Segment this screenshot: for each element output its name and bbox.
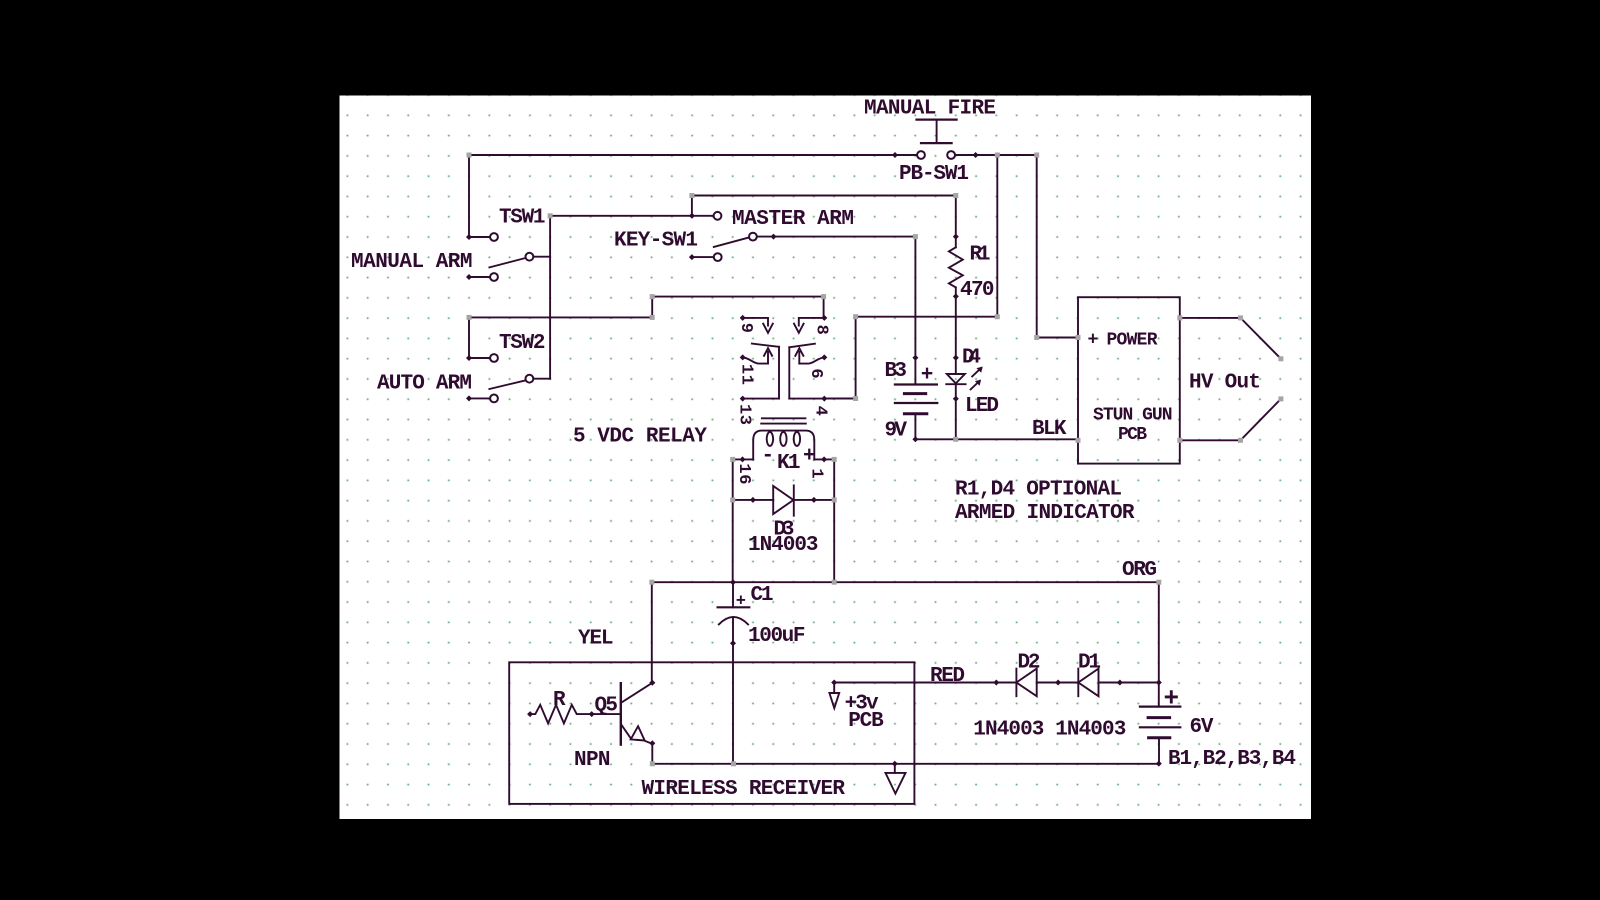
svg-text:9: 9 xyxy=(736,323,755,333)
wire: master arm vertical riser xyxy=(691,196,693,216)
wire: battery B3 negative lead xyxy=(914,414,916,440)
switch arm TSW1 xyxy=(489,258,525,267)
wire: emitter to ground rail xyxy=(651,743,653,764)
contact circle TSW1 common xyxy=(526,253,534,261)
wire: TSW1 common lead xyxy=(534,256,550,258)
svg-text:+: + xyxy=(736,593,746,612)
wire: 6V battery negative lead xyxy=(1158,738,1160,764)
svg-text:+: + xyxy=(1088,330,1099,350)
wire: relay return horizontal xyxy=(856,316,998,318)
wire: R1 top lead xyxy=(955,196,957,248)
battery 6V plates xyxy=(1140,705,1180,707)
stun gun pcb box xyxy=(1078,297,1180,463)
pushbutton PB-SW1 bridge xyxy=(921,142,952,144)
wire: KEY-SW1 lower contact lead xyxy=(692,256,714,258)
wire: TSW1 bottom contact lead xyxy=(469,276,490,278)
svg-text:POWER: POWER xyxy=(1107,331,1158,351)
wire: HV Out bottom lead xyxy=(1180,439,1241,441)
svg-text:R1,D4 OPTIONAL: R1,D4 OPTIONAL xyxy=(955,479,1122,502)
diode D2 triangle xyxy=(1016,669,1036,697)
svg-text:1: 1 xyxy=(806,468,825,478)
white schematic sheet xyxy=(340,96,1312,820)
junction squares xyxy=(467,153,472,158)
wire: auto arm horizontal xyxy=(469,316,652,318)
svg-text:8: 8 xyxy=(811,325,830,335)
capacitor C1 curved plate xyxy=(719,617,748,625)
svg-text:5 VDC RELAY: 5 VDC RELAY xyxy=(573,426,707,449)
contact circle master arm xyxy=(714,212,722,220)
relay contact left: pin11 curved lead xyxy=(743,357,768,363)
svg-text:+: + xyxy=(803,445,816,468)
transistor Q5 collector lead xyxy=(621,683,652,703)
svg-text:STUN GUN: STUN GUN xyxy=(1093,406,1173,426)
contact circle KEY-SW1 common xyxy=(749,233,757,241)
wire: ground rail xyxy=(652,763,1159,765)
wire: R1 bottom lead to D4 xyxy=(955,287,957,357)
switch arm TSW2 xyxy=(489,380,525,389)
+3v supply arrow xyxy=(833,683,835,694)
svg-text:WIRELESS RECEIVER: WIRELESS RECEIVER xyxy=(642,778,846,801)
svg-text:+: + xyxy=(1164,684,1180,714)
capacitor C1 bottom stem xyxy=(732,617,734,643)
pushbutton PB-SW1 stem xyxy=(936,120,938,144)
wire: auto arm jog to relay pin8 xyxy=(652,297,823,318)
svg-text:HV Out: HV Out xyxy=(1189,372,1261,395)
pin diamonds xyxy=(892,152,898,158)
relay coil K1 loops xyxy=(767,432,773,446)
contact circle TSW2 common xyxy=(526,375,534,383)
wire: HV Out top lead xyxy=(1180,317,1241,319)
LED D4 cathode bar xyxy=(946,383,965,385)
svg-text:TSW1: TSW1 xyxy=(499,207,546,230)
svg-text:R1: R1 xyxy=(970,244,991,267)
resistor R zigzag xyxy=(530,705,592,724)
svg-text:PB-SW1: PB-SW1 xyxy=(899,163,969,186)
battery B3 plates xyxy=(895,383,937,385)
svg-text:470: 470 xyxy=(960,279,995,302)
svg-text:C1: C1 xyxy=(751,584,774,607)
resistor R1 zigzag xyxy=(949,247,963,287)
relay contact right: pin4 lead xyxy=(789,398,824,400)
svg-text:KEY-SW1: KEY-SW1 xyxy=(614,230,698,253)
wire: ORG wire horizontal xyxy=(652,581,1159,583)
relay contact right: armature xyxy=(789,344,815,348)
wire: snubber loop right vertical xyxy=(833,459,835,582)
transistor Q5 base lead xyxy=(592,713,621,715)
wire: main fire bus left segment xyxy=(469,154,917,156)
svg-text:9V: 9V xyxy=(885,420,908,443)
svg-text:6V: 6V xyxy=(1190,716,1214,739)
diode D1 triangle xyxy=(1078,669,1098,697)
wire: TSW1 top contact lead xyxy=(469,236,490,238)
LED D4 bottom lead xyxy=(955,384,957,439)
svg-text:RED: RED xyxy=(930,665,965,688)
svg-text:+: + xyxy=(921,364,934,387)
relay contact left: armature xyxy=(752,344,779,347)
pushbutton PB-SW1 cap xyxy=(917,118,957,120)
wire: YEL vertical to Q5 collector xyxy=(651,582,653,683)
svg-text:PCB: PCB xyxy=(1118,425,1147,445)
svg-text:6: 6 xyxy=(806,368,825,378)
relay contact left: pin13 lead xyxy=(743,398,779,400)
svg-text:R: R xyxy=(553,689,566,712)
contact circle PB-SW1 right xyxy=(947,151,955,159)
relay contact right: pin8 lead and arrow xyxy=(799,318,825,326)
svg-text:BLK: BLK xyxy=(1032,418,1067,441)
svg-text:YEL: YEL xyxy=(578,627,614,650)
wire: ORG wire drop to 6V battery xyxy=(1158,582,1160,682)
LED D4 top lead xyxy=(955,358,957,374)
relay contact left: pin9 lead and arrow xyxy=(743,318,768,326)
wire: TSW2 bottom contact lead xyxy=(469,397,490,399)
svg-text:MANUAL ARM: MANUAL ARM xyxy=(351,251,473,274)
svg-text:11: 11 xyxy=(736,364,755,385)
ground symbol xyxy=(894,764,896,773)
wire: K1 pin16 lead xyxy=(733,458,754,460)
diode D3 anode wire xyxy=(733,499,774,501)
svg-text:16: 16 xyxy=(734,463,753,484)
diode D3 cathode wire xyxy=(794,499,834,501)
svg-text:1N4003: 1N4003 xyxy=(748,534,819,557)
LED D4 emission arrow 1 xyxy=(971,381,980,389)
wire: relay pin4 riser xyxy=(855,317,857,399)
wire: TSW2 common lead xyxy=(534,378,550,380)
relay coil K1 body xyxy=(753,431,814,460)
wire: TSW1 feed vertical xyxy=(468,155,470,237)
svg-text:TSW2: TSW2 xyxy=(499,332,546,355)
transistor Q5 emitter arrow xyxy=(631,726,645,740)
contact circle TSW1 top xyxy=(490,233,498,241)
svg-text:PCB: PCB xyxy=(848,710,884,733)
wire: fire bus right of PB-SW1 xyxy=(955,154,1036,156)
LED D4 emission arrow 2 xyxy=(972,368,981,376)
svg-text:13: 13 xyxy=(734,404,753,425)
transistor Q5 body bar xyxy=(620,683,622,744)
svg-text:ARMED INDICATOR: ARMED INDICATOR xyxy=(955,502,1135,525)
wire: relay pin4 lead-in xyxy=(824,398,855,400)
relay contact left: pin11 arrow xyxy=(764,348,772,363)
svg-text:D1: D1 xyxy=(1078,651,1101,674)
svg-text:MASTER ARM: MASTER ARM xyxy=(732,208,854,231)
wire: C1 to ground rail xyxy=(732,643,734,764)
diode D3 cathode bar xyxy=(793,485,795,515)
contact circle PB-SW1 left xyxy=(917,151,925,159)
switch arm KEY-SW1 xyxy=(714,238,749,247)
diode D2 cathode bar xyxy=(1015,669,1017,697)
transistor Q5 emitter lead xyxy=(621,724,652,743)
relay contact right: pin6 arrow xyxy=(795,348,803,363)
contact circle TSW1 bottom xyxy=(490,273,498,281)
svg-text:4: 4 xyxy=(810,406,829,416)
capacitor C1 straight plate xyxy=(718,606,750,608)
wire: RED wire segment 3 xyxy=(1099,682,1159,684)
relay contact left: bar to pin13 xyxy=(778,347,780,399)
wire: battery B3 positive lead xyxy=(914,237,916,385)
svg-text:MANUAL FIRE: MANUAL FIRE xyxy=(864,97,996,120)
svg-text:K1: K1 xyxy=(777,452,801,475)
contact circle TSW2 top xyxy=(490,354,498,362)
wire: drop to +POWER xyxy=(1036,155,1038,338)
svg-text:AUTO ARM: AUTO ARM xyxy=(377,373,472,396)
svg-text:ORG: ORG xyxy=(1122,559,1157,582)
wire: TSW2 feed vertical xyxy=(468,317,470,358)
wire: BLK wire to stun gun pcb xyxy=(915,438,1078,440)
wire: 6V battery positive lead xyxy=(1158,683,1160,707)
wire: TSW2 top contact lead xyxy=(469,357,490,359)
svg-text:100uF: 100uF xyxy=(748,625,806,648)
svg-text:NPN: NPN xyxy=(574,749,611,772)
wire: RED wire segment 2 xyxy=(1037,682,1079,684)
relay contact right: pin6 curved lead xyxy=(799,357,824,363)
wire: fire bus to relay return vertical xyxy=(996,155,998,317)
LED D4 triangle xyxy=(947,374,965,383)
wire: key switch top wire to R1 xyxy=(692,195,956,197)
svg-text:D2: D2 xyxy=(1018,651,1041,674)
wire: master arm contact lead xyxy=(550,215,713,217)
relay K1 core lines xyxy=(762,417,806,419)
wire: K1 pin1 lead xyxy=(814,458,834,460)
wire: snubber loop left vertical xyxy=(732,459,734,582)
relay contact right: bar to pin4 xyxy=(788,347,790,398)
svg-text:-: - xyxy=(762,445,775,468)
svg-text:B3: B3 xyxy=(885,360,908,383)
wire: KEY-SW1 common wire to battery xyxy=(757,236,915,238)
diode D1 cathode bar xyxy=(1077,669,1079,697)
diode D3 triangle xyxy=(773,486,793,514)
svg-text:1N4003 1N4003: 1N4003 1N4003 xyxy=(973,719,1126,742)
svg-text:LED: LED xyxy=(965,395,999,418)
wire: RED wire segment 1 xyxy=(834,682,1016,684)
svg-text:B1,B2,B3,B4: B1,B2,B3,B4 xyxy=(1168,748,1296,771)
svg-text:D4: D4 xyxy=(962,346,981,369)
wire: +POWER feed into stun gun pcb xyxy=(1037,337,1078,339)
contact circle KEY-SW1 lower xyxy=(714,253,722,261)
svg-text:Q5: Q5 xyxy=(595,695,619,718)
capacitor C1 top stem xyxy=(732,582,734,607)
wire: common bus vertical TSW1/TSW2 xyxy=(549,216,551,379)
contact circle TSW2 bottom xyxy=(490,395,498,403)
wireless receiver box xyxy=(509,662,914,804)
